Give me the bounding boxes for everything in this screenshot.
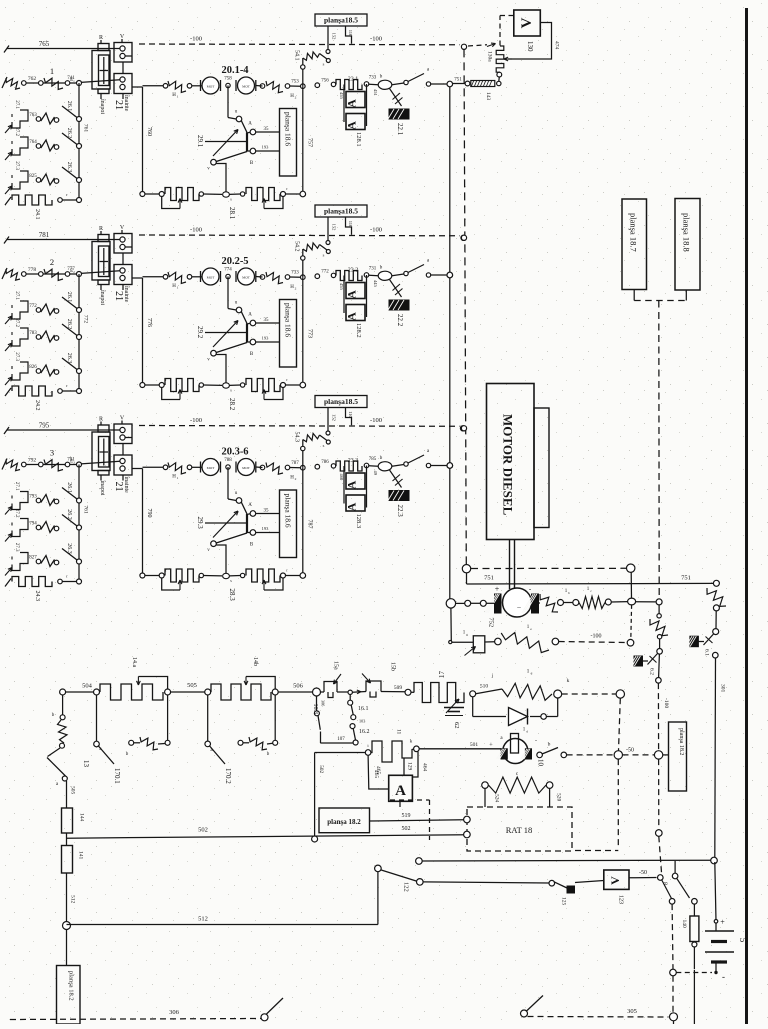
svg-text:20.3-6: 20.3-6 bbox=[221, 447, 248, 458]
svg-text:H: H bbox=[290, 94, 294, 99]
terminal 502 on RAT bbox=[464, 831, 471, 838]
svg-text:306: 306 bbox=[169, 1009, 180, 1016]
node -100 bus (3) bbox=[461, 426, 466, 431]
reverser block 21 (3) bbox=[92, 432, 110, 471]
svg-text:-: - bbox=[722, 972, 725, 982]
svg-text:21: 21 bbox=[113, 291, 124, 301]
svg-text:519: 519 bbox=[402, 813, 411, 819]
svg-text:760: 760 bbox=[146, 127, 152, 136]
tacho generator right (20.1-4) bbox=[238, 77, 255, 94]
switch contact row 2 bbox=[41, 331, 55, 342]
resistor 2 bbox=[44, 269, 63, 280]
switch 6.2 bbox=[648, 654, 658, 665]
node junction 54-branch (2) bbox=[301, 275, 306, 280]
svg-text:-100: -100 bbox=[370, 227, 382, 234]
switch 26.3 bbox=[62, 549, 79, 562]
relay contact 27.2 bbox=[11, 141, 13, 144]
svg-text:planşa 18.2: planşa 18.2 bbox=[327, 818, 361, 826]
svg-text:757: 757 bbox=[307, 138, 313, 147]
switch 125 bbox=[554, 882, 567, 888]
tacho generator right (20.3-6) bbox=[238, 459, 255, 476]
box plansa 18.5 (2) bbox=[315, 205, 367, 217]
pin 193 (2) bbox=[256, 341, 280, 343]
svg-text:445: 445 bbox=[373, 280, 378, 288]
svg-text:МОТ: МОТ bbox=[242, 466, 251, 470]
emitter wire (2) bbox=[216, 355, 226, 384]
switch 122 bbox=[375, 865, 382, 872]
node 788 bbox=[226, 465, 230, 469]
svg-text:772: 772 bbox=[29, 304, 37, 309]
wire 505 vertical bbox=[66, 781, 68, 808]
svg-text:27.1: 27.1 bbox=[14, 291, 19, 300]
svg-text:125: 125 bbox=[561, 897, 567, 906]
svg-text:înainte: înainte bbox=[123, 476, 129, 494]
svg-text:24.2: 24.2 bbox=[34, 400, 40, 411]
svg-text:141: 141 bbox=[78, 851, 84, 860]
voltmeter V 130 bbox=[514, 10, 541, 36]
tacho generator left (20.3-6) bbox=[202, 459, 219, 476]
emitter wire (1) bbox=[216, 164, 226, 193]
resistor 28.3 bbox=[140, 573, 145, 578]
switch contact row 1 bbox=[41, 113, 55, 124]
brush left bbox=[495, 594, 502, 613]
transistor 29.2 bbox=[227, 277, 229, 309]
svg-text:786: 786 bbox=[321, 460, 329, 465]
relay contact 27.2 bbox=[11, 523, 13, 526]
diode branch bbox=[472, 697, 474, 717]
svg-text:6.2: 6.2 bbox=[649, 668, 655, 675]
svg-text:451: 451 bbox=[373, 89, 378, 96]
svg-text:170.1: 170.1 bbox=[113, 768, 121, 784]
svg-text:21: 21 bbox=[113, 100, 124, 110]
svg-text:455: 455 bbox=[339, 92, 344, 100]
wire 301 bbox=[714, 658, 717, 858]
resistor 1e (exciter) bbox=[476, 689, 502, 694]
svg-text:-100: -100 bbox=[190, 227, 202, 234]
tacho generator right (20.2-5) bbox=[238, 268, 255, 285]
svg-text:464: 464 bbox=[422, 763, 428, 772]
wire 110 (3) bbox=[346, 408, 352, 426]
svg-text:d: d bbox=[526, 730, 528, 734]
svg-text:27.3: 27.3 bbox=[14, 543, 19, 552]
shaft bbox=[509, 540, 511, 590]
svg-text:10: 10 bbox=[537, 759, 545, 767]
svg-text:122: 122 bbox=[403, 882, 410, 892]
resistor 54.2 bbox=[302, 249, 304, 277]
resistor 1c bbox=[579, 597, 605, 609]
stub from plansa 18.7 bbox=[633, 290, 635, 301]
wire 504 bbox=[60, 689, 66, 695]
resistor 3 bbox=[44, 460, 63, 471]
svg-text:794: 794 bbox=[29, 522, 37, 527]
svg-text:787: 787 bbox=[291, 461, 299, 466]
switch 13 bbox=[47, 758, 66, 777]
fuse 140 bbox=[693, 904, 695, 916]
svg-text:A: A bbox=[248, 122, 252, 127]
wire 305 (dashed) bbox=[521, 1010, 528, 1017]
box plansa 18.2 (mid) bbox=[319, 808, 370, 833]
wire 512 long bbox=[67, 924, 378, 926]
resistor 1 bbox=[44, 78, 63, 89]
wire 465 bbox=[368, 755, 389, 789]
relay contact 27.1 bbox=[11, 496, 13, 499]
resistor H2 (1) bbox=[260, 84, 265, 89]
wire 795 bbox=[4, 427, 9, 434]
svg-text:V: V bbox=[608, 876, 622, 885]
wire 757 vertical bbox=[302, 86, 304, 194]
box plansa 18.5 (3) bbox=[315, 396, 367, 408]
svg-text:–: – bbox=[516, 603, 521, 611]
svg-text:505: 505 bbox=[70, 786, 76, 795]
svg-text:b: b bbox=[568, 591, 570, 595]
svg-text:781: 781 bbox=[39, 231, 50, 239]
svg-text:27.1: 27.1 bbox=[14, 482, 19, 491]
svg-text:110: 110 bbox=[348, 221, 353, 228]
svg-text:54.2: 54.2 bbox=[294, 241, 300, 252]
svg-text:МОТ: МОТ bbox=[207, 466, 216, 470]
svg-text:planşa 18.6: planşa 18.6 bbox=[284, 494, 293, 528]
svg-text:54.1: 54.1 bbox=[294, 50, 300, 61]
svg-text:762: 762 bbox=[28, 76, 37, 82]
reverser block 21 (2) bbox=[92, 242, 110, 281]
svg-text:14b: 14b bbox=[252, 657, 258, 666]
svg-text:16.3: 16.3 bbox=[312, 704, 318, 715]
switch b (machine 10) bbox=[537, 752, 543, 758]
svg-text:783: 783 bbox=[29, 331, 37, 336]
resistor 14a bbox=[100, 684, 163, 700]
svg-text:758: 758 bbox=[224, 77, 232, 82]
dashed from switch 8 down bbox=[671, 904, 674, 969]
relay contact 27.1 bbox=[11, 305, 13, 308]
svg-text:1: 1 bbox=[527, 669, 530, 675]
electromagnet coil 22.1 bbox=[369, 83, 378, 85]
resistor 1e (752 row) bbox=[501, 633, 549, 653]
svg-text:21: 21 bbox=[113, 482, 124, 492]
svg-text:785: 785 bbox=[369, 457, 377, 462]
svg-text:110: 110 bbox=[348, 411, 353, 418]
node -100 bus ch2 bbox=[461, 235, 466, 240]
svg-text:14.a: 14.a bbox=[131, 657, 137, 668]
wire 751 horizontal bbox=[466, 573, 468, 584]
resistor 24.3 bbox=[12, 577, 52, 587]
svg-text:29.3: 29.3 bbox=[196, 517, 204, 530]
svg-text:16.1: 16.1 bbox=[358, 706, 369, 712]
svg-text:22.3: 22.3 bbox=[396, 505, 404, 518]
resistor 17 bbox=[411, 691, 414, 693]
switch a (1) bbox=[404, 80, 408, 84]
svg-text:planşa18.5: planşa18.5 bbox=[324, 397, 358, 406]
svg-text:509: 509 bbox=[394, 685, 403, 691]
svg-text:751: 751 bbox=[454, 78, 462, 83]
svg-text:27.3: 27.3 bbox=[14, 352, 19, 361]
svg-text:H: H bbox=[172, 475, 176, 480]
svg-text:2: 2 bbox=[295, 477, 297, 481]
svg-text:26.2: 26.2 bbox=[66, 509, 72, 520]
svg-text:790: 790 bbox=[146, 509, 152, 518]
wire 505 bbox=[171, 691, 205, 693]
resistor 24.1 bbox=[12, 195, 52, 205]
svg-text:731: 731 bbox=[369, 267, 377, 272]
battery 5 bbox=[715, 862, 716, 921]
svg-text:110: 110 bbox=[348, 30, 353, 37]
machine 10 (exciter) bbox=[414, 746, 420, 752]
svg-text:j: j bbox=[491, 674, 493, 679]
dashed link to voltmeter bbox=[499, 16, 501, 46]
svg-text:502: 502 bbox=[198, 827, 208, 834]
svg-text:15b: 15b bbox=[390, 662, 396, 671]
resistor 792 bbox=[2, 459, 7, 470]
svg-text:planşa 18.6: planşa 18.6 bbox=[284, 112, 293, 146]
svg-text:6.1: 6.1 bbox=[704, 649, 710, 656]
relay contact 27.1 bbox=[11, 114, 13, 117]
node bus 761 bbox=[77, 81, 82, 86]
svg-text:35: 35 bbox=[264, 509, 270, 514]
svg-text:planşa 18.6: planşa 18.6 bbox=[284, 303, 293, 337]
svg-text:761: 761 bbox=[83, 505, 89, 514]
box plansa 18.6 (1) bbox=[280, 109, 297, 177]
svg-text:-50: -50 bbox=[626, 748, 634, 754]
svg-text:22.2: 22.2 bbox=[396, 314, 404, 327]
svg-text:-100: -100 bbox=[190, 36, 202, 43]
svg-text:planşa 18.7: planşa 18.7 bbox=[629, 213, 639, 252]
node 774 bbox=[226, 274, 230, 278]
wires to bottom edge bbox=[693, 970, 695, 1024]
resistor 1b (gen right) bbox=[539, 602, 541, 604]
svg-text:49: 49 bbox=[373, 471, 378, 476]
svg-text:V: V bbox=[519, 17, 535, 28]
wire 502 vertical (exciter) bbox=[314, 753, 316, 837]
terminal 519 on RAT bbox=[464, 816, 471, 823]
svg-text:54.3: 54.3 bbox=[294, 432, 300, 443]
svg-text:27.2: 27.2 bbox=[14, 127, 19, 136]
pin 35 (2) bbox=[256, 322, 280, 324]
svg-text:planşa 18.2: planşa 18.2 bbox=[68, 971, 75, 1001]
svg-text:130a: 130a bbox=[487, 51, 493, 62]
node 751 bus (2) bbox=[447, 272, 453, 278]
svg-text:A: A bbox=[395, 783, 406, 799]
switch a (2) bbox=[404, 271, 408, 275]
svg-text:2: 2 bbox=[295, 96, 297, 100]
relay contact 27.3 bbox=[11, 557, 13, 560]
dashed wire -100 (3) bbox=[139, 425, 460, 428]
switch 170.1 bbox=[96, 695, 98, 741]
svg-text:MOTOR DIESEL: MOTOR DIESEL bbox=[501, 414, 516, 516]
resistor (6.2 chain) bbox=[650, 619, 668, 636]
svg-text:793: 793 bbox=[29, 495, 37, 500]
svg-text:28.3: 28.3 bbox=[228, 589, 236, 602]
svg-text:128.2: 128.2 bbox=[355, 323, 362, 338]
switch 8 bbox=[662, 880, 672, 899]
svg-text:761: 761 bbox=[83, 124, 89, 133]
svg-text:772: 772 bbox=[83, 315, 89, 324]
svg-text:planşa 18.8: planşa 18.8 bbox=[682, 213, 692, 252]
relay contact 27.2 bbox=[11, 332, 13, 335]
svg-text:înapoi: înapoi bbox=[99, 98, 105, 114]
dashed k to RAT bbox=[617, 759, 619, 848]
wire 110 (1) bbox=[346, 26, 352, 44]
svg-text:733: 733 bbox=[369, 76, 377, 81]
relay contact 27.3 bbox=[11, 366, 13, 369]
switch 26.1 bbox=[62, 297, 79, 310]
svg-text:A: A bbox=[345, 312, 359, 321]
switch 26.1 bbox=[62, 106, 79, 119]
resistor 15b bbox=[352, 691, 366, 694]
svg-text:A: A bbox=[345, 502, 359, 511]
wire 152 (3) bbox=[327, 408, 329, 432]
svg-text:-100: -100 bbox=[370, 417, 382, 424]
node 758 bbox=[226, 83, 230, 87]
resistor box 141 bbox=[62, 846, 73, 874]
box plansa 18.6 (2) bbox=[280, 300, 297, 368]
reverser block 21 (1) bbox=[92, 51, 110, 90]
amplifier A (regulator) bbox=[389, 775, 413, 801]
svg-text:3: 3 bbox=[50, 448, 54, 458]
svg-text:502: 502 bbox=[318, 765, 324, 774]
switch 26.1 bbox=[62, 488, 79, 501]
electromagnet coil 22.2 bbox=[369, 274, 378, 276]
svg-text:g: g bbox=[466, 633, 468, 637]
svg-text:8: 8 bbox=[662, 882, 668, 885]
svg-text:792: 792 bbox=[28, 458, 37, 464]
svg-text:A: A bbox=[345, 99, 359, 108]
wire 152 (1) bbox=[327, 26, 329, 50]
voltmeter V 123 bbox=[604, 870, 629, 889]
svg-text:474: 474 bbox=[554, 41, 560, 50]
electromagnet coil 22.3 bbox=[369, 465, 378, 467]
svg-text:305: 305 bbox=[627, 1008, 637, 1015]
resistor 143 bbox=[471, 81, 495, 87]
svg-text:123: 123 bbox=[618, 895, 624, 904]
svg-text:20.1-4: 20.1-4 bbox=[221, 65, 249, 76]
svg-text:H: H bbox=[172, 284, 176, 289]
node 751 bus ch2 bbox=[447, 272, 453, 278]
svg-text:502: 502 bbox=[402, 826, 411, 832]
node -100 bus (2) bbox=[461, 235, 466, 240]
resistor H2 (3) bbox=[260, 465, 265, 470]
svg-text:1: 1 bbox=[177, 476, 179, 480]
svg-text:-100: -100 bbox=[591, 634, 602, 640]
svg-text:140: 140 bbox=[681, 920, 687, 929]
svg-text:128.3: 128.3 bbox=[355, 514, 362, 529]
svg-text:26.1: 26.1 bbox=[66, 101, 72, 112]
switch 13 branch bbox=[62, 695, 64, 715]
svg-text:504: 504 bbox=[82, 683, 93, 690]
dashed -100 (752 row) bbox=[559, 642, 627, 643]
dashed to k node bbox=[562, 693, 616, 695]
svg-text:1: 1 bbox=[177, 286, 179, 290]
svg-text:-: - bbox=[535, 738, 537, 744]
switch contact row 3 bbox=[41, 556, 55, 567]
resistor 778 bbox=[2, 268, 7, 279]
svg-text:planşa18.5: planşa18.5 bbox=[324, 16, 358, 25]
pin 193 (1) bbox=[256, 150, 280, 152]
svg-text:752: 752 bbox=[488, 618, 495, 628]
svg-text:512: 512 bbox=[198, 916, 208, 923]
svg-text:11: 11 bbox=[396, 729, 402, 735]
svg-text:753: 753 bbox=[291, 80, 299, 85]
junction node right of generator bbox=[628, 598, 636, 605]
svg-text:301: 301 bbox=[720, 684, 726, 693]
svg-text:s: s bbox=[323, 443, 325, 448]
svg-text:26.3: 26.3 bbox=[66, 162, 72, 173]
resistor 54.3 bbox=[302, 440, 304, 468]
svg-text:24.3: 24.3 bbox=[34, 591, 40, 602]
dashed k down bbox=[619, 698, 621, 751]
svg-text:27.3: 27.3 bbox=[14, 161, 19, 170]
svg-text:28.2: 28.2 bbox=[228, 398, 236, 411]
wires 129 464 bbox=[403, 758, 405, 775]
svg-text:RAT 18: RAT 18 bbox=[506, 825, 533, 835]
node junction 54-branch (1) bbox=[301, 84, 306, 89]
svg-text:26.2: 26.2 bbox=[66, 319, 72, 330]
svg-text:+: + bbox=[720, 918, 725, 927]
wire 791 bbox=[24, 464, 79, 466]
svg-text:-50: -50 bbox=[639, 870, 647, 876]
switch contact row 3 bbox=[41, 365, 55, 376]
svg-text:827: 827 bbox=[29, 556, 37, 561]
svg-text:26.3: 26.3 bbox=[66, 353, 72, 364]
svg-text:A: A bbox=[345, 121, 359, 130]
resistor H1 (3) bbox=[163, 465, 168, 470]
switch 26.3 bbox=[62, 167, 79, 180]
node bus 761 bbox=[77, 462, 82, 467]
svg-text:b: b bbox=[548, 742, 551, 748]
wire 760 bbox=[132, 86, 143, 88]
svg-text:103: 103 bbox=[359, 719, 365, 724]
switch 26.2 bbox=[62, 133, 79, 146]
capacitor 62 bbox=[444, 707, 464, 709]
switch contact row 1 bbox=[41, 304, 55, 315]
wire 506 bbox=[278, 691, 312, 693]
svg-text:-100: -100 bbox=[370, 36, 382, 43]
wire 787 vertical bbox=[302, 468, 304, 576]
svg-text:16.2: 16.2 bbox=[359, 729, 370, 735]
svg-text:510: 510 bbox=[480, 684, 489, 690]
pin 193 (3) bbox=[256, 532, 280, 534]
svg-text:795: 795 bbox=[39, 422, 50, 430]
svg-text:15a: 15a bbox=[333, 661, 339, 670]
resistor 762 bbox=[2, 77, 7, 88]
svg-text:planşa 18.2: planşa 18.2 bbox=[678, 728, 684, 755]
svg-text:1: 1 bbox=[177, 95, 179, 99]
svg-text:МОТ: МОТ bbox=[207, 276, 216, 280]
wire 741 bbox=[24, 82, 79, 84]
svg-text:763: 763 bbox=[29, 113, 37, 118]
svg-text:înainte: înainte bbox=[123, 285, 129, 303]
svg-text:773: 773 bbox=[307, 329, 313, 338]
box plansa 18.2 (right) bbox=[669, 722, 687, 791]
svg-text:-100: -100 bbox=[663, 698, 669, 708]
switch 26.2 bbox=[62, 324, 79, 337]
wire -50 (123) bbox=[629, 877, 657, 879]
wire to voltmeter 123 bbox=[417, 879, 424, 886]
dashed regulator boundary bbox=[390, 799, 430, 801]
svg-text:826: 826 bbox=[29, 365, 37, 370]
svg-text:H: H bbox=[290, 285, 294, 290]
svg-text:751: 751 bbox=[681, 575, 691, 582]
svg-text:E₂: E₂ bbox=[70, 269, 75, 274]
svg-text:193: 193 bbox=[262, 526, 270, 531]
pin 35 (1) bbox=[256, 131, 280, 133]
svg-text:МОТ: МОТ bbox=[207, 85, 216, 89]
resistor 14b bbox=[211, 684, 271, 700]
resistor 54.1 bbox=[302, 58, 304, 86]
svg-text:A: A bbox=[345, 290, 359, 299]
resistor box 144 bbox=[62, 808, 73, 833]
svg-text:A: A bbox=[345, 480, 359, 489]
link junction up to dashed row bbox=[630, 572, 632, 598]
svg-text:455: 455 bbox=[339, 283, 344, 291]
